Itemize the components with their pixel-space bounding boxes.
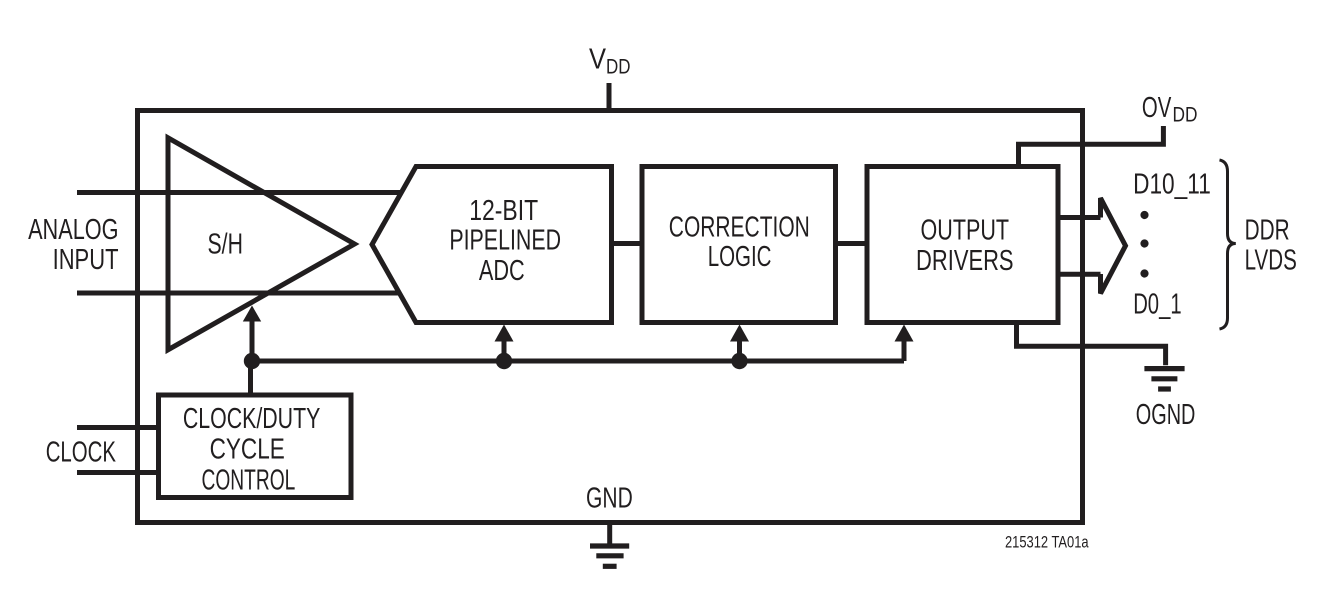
svg-text:215312 TA01a: 215312 TA01a bbox=[1005, 534, 1089, 552]
svg-text:ANALOG: ANALOG bbox=[28, 214, 118, 246]
svg-text:D0_1: D0_1 bbox=[1133, 289, 1181, 321]
svg-text:CYCLE: CYCLE bbox=[210, 434, 285, 466]
svg-text:DRIVERS: DRIVERS bbox=[916, 245, 1014, 277]
svg-text:DDR: DDR bbox=[1245, 214, 1290, 246]
svg-text:LOGIC: LOGIC bbox=[708, 241, 772, 273]
svg-text:CLOCK: CLOCK bbox=[46, 437, 117, 469]
svg-text:LVDS: LVDS bbox=[1245, 245, 1297, 277]
svg-text:DD: DD bbox=[1173, 103, 1198, 126]
svg-text:CLOCK/DUTY: CLOCK/DUTY bbox=[183, 403, 321, 435]
svg-text:GND: GND bbox=[586, 482, 633, 514]
svg-text:PIPELINED: PIPELINED bbox=[449, 225, 561, 257]
svg-text:S/H: S/H bbox=[208, 228, 243, 260]
svg-text:CORRECTION: CORRECTION bbox=[669, 211, 810, 243]
svg-text:OV: OV bbox=[1142, 92, 1172, 124]
svg-text:12-BIT: 12-BIT bbox=[469, 195, 538, 227]
svg-text:OGND: OGND bbox=[1136, 399, 1196, 431]
svg-text:V: V bbox=[589, 43, 607, 75]
svg-text:D10_11: D10_11 bbox=[1133, 168, 1211, 200]
svg-text:ADC: ADC bbox=[479, 255, 525, 287]
svg-text:CONTROL: CONTROL bbox=[202, 464, 296, 496]
svg-text:OUTPUT: OUTPUT bbox=[921, 215, 1010, 247]
svg-text:DD: DD bbox=[606, 55, 631, 78]
svg-text:INPUT: INPUT bbox=[53, 244, 119, 276]
